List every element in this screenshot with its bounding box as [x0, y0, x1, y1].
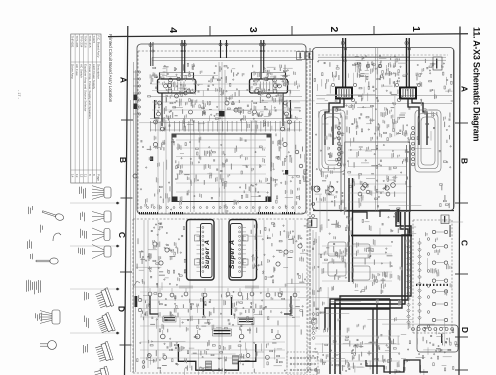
right board right column parts [314, 61, 452, 208]
top border line [108, 34, 468, 37]
svg-text:C: C [460, 240, 470, 246]
lower-left dark wiring labels [163, 316, 254, 325]
mesh horizontal wires left board mid [152, 84, 300, 192]
right margin border line [459, 27, 460, 375]
top grid ticks [210, 26, 374, 36]
left channel input feed wires [180, 40, 186, 79]
left grid letter D [117, 306, 127, 312]
sheet title 11. A-X3 Schematic Diagram [472, 27, 482, 141]
misc long hookup wires [136, 73, 463, 375]
hatched connector labels bottom [206, 356, 239, 370]
Super A amplifier block right channel [229, 224, 246, 278]
right grid letter C [460, 240, 470, 246]
feedback loop left with emitter resistors [319, 110, 345, 172]
feedback loop right with emitter resistors [412, 110, 442, 172]
power feed wires right board R [405, 38, 411, 88]
svg-text:B: B [460, 158, 470, 164]
svg-text:A: A [460, 86, 470, 92]
right grid ticks [455, 123, 468, 370]
left grid letter B [118, 157, 128, 163]
grid number 1 [410, 26, 422, 32]
left grid ticks [120, 120, 134, 345]
speaker terminal contact pairs [427, 230, 447, 327]
left border line [125, 26, 128, 375]
PCB outline TNX-215 right solid [313, 48, 455, 211]
misc wiring right board upper [325, 59, 451, 143]
divider edge harness wires [311, 230, 325, 332]
right channel input feed wires [259, 40, 265, 79]
lower-left output transistors [161, 330, 281, 339]
lower-left edge connectors [135, 296, 145, 368]
resistor row band upper-left board [150, 121, 302, 132]
PCB outline TNX-216 upper left solid [137, 44, 306, 214]
misc label texture band1 [145, 136, 300, 213]
lower-left thick traces [150, 296, 291, 315]
left edge connector feed [149, 42, 154, 66]
centre vertical signal pair lower [219, 219, 222, 372]
board label FRONT [297, 52, 305, 60]
lower-left bottom transistors [147, 354, 269, 360]
vertical signal wires lower board [144, 220, 295, 368]
page number -17- [17, 90, 21, 100]
left edge harness wires [131, 62, 136, 372]
schematic paper tone [124, 36, 459, 375]
board label TNX-216 lower [308, 219, 317, 228]
diode diamonds near divider [312, 312, 315, 339]
board junction connector rows [139, 207, 300, 215]
power supply board 739-5 outline [417, 325, 458, 352]
P.C. board assembly location table [71, 34, 101, 183]
svg-text:D: D [117, 306, 127, 312]
board label 739-5 [441, 334, 442, 343]
left board outer parts [140, 138, 309, 211]
bottom staircase trace right [366, 360, 428, 372]
svg-text:Driver Amp: Driver Amp [71, 64, 75, 79]
svg-text:D: D [460, 327, 470, 333]
svg-text:14: 14 [71, 174, 75, 178]
lower-left extra parts [141, 292, 302, 375]
right board edge connectors [312, 203, 400, 223]
svg-text:- 17 -: - 17 - [17, 90, 21, 100]
centre vertical signal pair upper [219, 62, 225, 213]
interboard wiring label dark [213, 329, 232, 336]
right grid letter B [460, 158, 470, 164]
right grid letter D [460, 327, 470, 333]
vertical signal wires left board [158, 120, 295, 212]
svg-text:Printed Circuit Board Ass'y Lo: Printed Circuit Board Ass'y Location [108, 34, 113, 103]
lower-left board section divider [133, 286, 307, 289]
grid number 3 [247, 27, 259, 33]
bottom connector block dashed box [287, 352, 318, 375]
mesh horizontal wires lower-left board [140, 292, 300, 358]
Super A amplifier block left channel [197, 224, 213, 278]
power amp cell right channel [395, 83, 427, 145]
parts below power board [362, 213, 416, 234]
svg-text:C: C [117, 232, 127, 238]
misc label texture lower right [312, 217, 410, 335]
relay circles power area [311, 186, 389, 234]
driver stage parts upper-left board [133, 142, 303, 202]
svg-text:B: B [118, 157, 128, 163]
lower-left board transistors [148, 242, 302, 297]
mesh horizontal wires right board [315, 150, 406, 361]
rear label box [306, 52, 314, 60]
density fill pockets [142, 55, 453, 280]
left grid letter A [119, 77, 129, 83]
terminal labels [425, 232, 452, 295]
lower-left staircase power traces [178, 344, 255, 370]
driver stage inner box upper-left board [172, 134, 271, 202]
svg-text:A: A [119, 77, 129, 83]
transistor package pictogram list [26, 186, 140, 375]
PCB divider rail [308, 48, 310, 373]
selector switch sub-boxes [320, 241, 393, 294]
left edge connector stubs upper-left board [133, 71, 141, 115]
long horizontal signal bus right board [316, 96, 452, 104]
power amp thick mid traces [349, 178, 412, 282]
terminal box dark dot row [416, 284, 448, 286]
svg-text:4: 4 [167, 27, 179, 33]
misc wiring upper-left board [148, 65, 301, 121]
grid number 2 [328, 26, 340, 32]
board label TNX-215 [433, 57, 442, 70]
Super A sub-box boundaries [187, 220, 257, 281]
svg-text:3: 3 [247, 27, 259, 33]
board label PHONO terminal [450, 225, 451, 237]
centre feed wires [219, 40, 228, 58]
right board left column parts [314, 146, 345, 215]
svg-text:11. A-X3 Schematic Diagram: 11. A-X3 Schematic Diagram [472, 27, 482, 141]
lower-left scatter parts [137, 223, 309, 374]
diode ladder chains [407, 236, 422, 328]
right grid letter A [460, 86, 470, 92]
long horizontal signal bus A [150, 97, 302, 119]
supply bus wires right board [318, 57, 446, 60]
power amp top centre parts [355, 56, 408, 87]
svg-text:1: 1 [410, 26, 422, 32]
board label TNX-215 lower right [441, 215, 449, 224]
power connector row [412, 328, 454, 331]
centre vertical pair right board [376, 48, 378, 211]
equalizer amp cell right channel [247, 65, 293, 135]
left grid letter C [117, 232, 127, 238]
svg-text:Super A: Super A [204, 239, 211, 269]
grid number 4 [167, 27, 179, 33]
supply bus wires left board [152, 58, 302, 67]
power amp centre block [345, 142, 412, 212]
PCB outline TNX-216 upper left dashed [138, 51, 307, 213]
svg-text:2: 2 [328, 26, 340, 32]
terminal board outline dashed [413, 220, 452, 333]
svg-text:Super A: Super A [229, 239, 236, 269]
right board mid rail wires [341, 145, 410, 212]
thick wire bundle to terminals [325, 212, 411, 330]
power amp cell left channel [325, 83, 357, 145]
AC power board parts [312, 327, 458, 375]
power amp mid parts [346, 100, 407, 146]
centre section parts upper-left board [207, 65, 242, 116]
svg-text:THP-091: THP-091 [71, 36, 75, 48]
power feed wires right board L [341, 38, 347, 88]
table caption Printed Circuit Board Assy Location [108, 34, 113, 103]
PCB outline lower left dashed [133, 219, 307, 373]
power bus heavy traces bottom [330, 299, 390, 374]
equalizer amp cell left channel [153, 63, 205, 131]
